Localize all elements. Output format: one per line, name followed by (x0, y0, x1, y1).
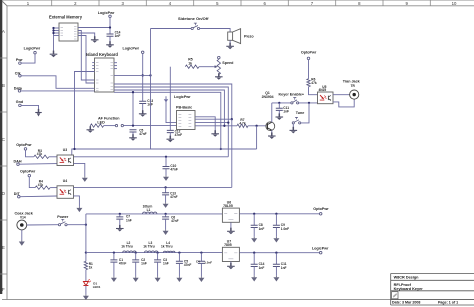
svg-text:1nF: 1nF (281, 266, 287, 270)
keyboard stub pins left (92, 62, 94, 64)
capacitor C15 1nF (253, 253, 255, 265)
wire U4 emitter to ground (74, 196, 80, 207)
title block (391, 274, 474, 306)
svg-text:Keyboard Keyer: Keyboard Keyer (394, 287, 424, 291)
svg-text:E: E (2, 245, 5, 250)
svg-text:U4: U4 (63, 179, 67, 183)
svg-text:1.5nF: 1.5nF (204, 260, 212, 264)
ground under C2 (135, 276, 137, 278)
capacitor C13 1nF (139, 101, 146, 103)
svg-text:A: A (2, 29, 5, 34)
svg-text:C: C (2, 137, 5, 142)
ground under C14 (109, 41, 111, 45)
svg-text:1k: 1k (188, 61, 192, 65)
ground under C10 (165, 175, 167, 177)
ground under speaker (229, 43, 231, 47)
ground (Gnd input) (38, 109, 40, 113)
capacitor C4/C10 1.5nF (200, 253, 202, 262)
wire LogicPwr down to pin/cap (142, 54, 144, 102)
wire AF node to PB-Basic (124, 125, 177, 127)
wire PB pin 3 (195, 122, 228, 124)
wire Pwr to LogicPwr (21, 54, 35, 63)
svg-text:1k: 1k (89, 265, 93, 269)
capacitor C10 47nF (165, 157, 167, 167)
svg-text:10: 10 (452, 1, 457, 6)
capacitor C3 1nF (157, 253, 159, 260)
svg-text:LogicPwr: LogicPwr (174, 95, 191, 99)
ground under C15 (253, 276, 255, 278)
ground under C5b (178, 276, 180, 278)
svg-text:1k Thru: 1k Thru (161, 245, 173, 249)
svg-text:78L05: 78L05 (223, 204, 233, 208)
wire U4 collector long line (74, 186, 232, 188)
ground under D1 (85, 294, 87, 296)
capacitor C5 47nF (130, 130, 137, 132)
svg-text:47nF: 47nF (171, 219, 178, 223)
svg-text:2N3904: 2N3904 (262, 95, 274, 99)
wire bottom rail (86, 252, 223, 254)
capacitor C2 1nF (135, 253, 137, 260)
ground under U7 (230, 263, 232, 267)
wire keyboard bus 2 (114, 87, 228, 157)
svg-text:47nF: 47nF (175, 133, 182, 137)
ground under C7 (119, 225, 121, 229)
ground under C6 (165, 229, 167, 231)
wire keyboard pin via vertical to line A (75, 72, 95, 150)
svg-text:OptoPwr: OptoPwr (20, 169, 36, 173)
svg-text:C4: C4 (196, 259, 200, 263)
svg-text:Page: 1 of 1: Page: 1 of 1 (438, 301, 458, 305)
svg-text:OptoPwr: OptoPwr (313, 207, 329, 211)
capacitor C14 1nF (107, 34, 114, 36)
svg-text:1nF: 1nF (115, 34, 121, 38)
svg-text:LED: LED (97, 120, 105, 124)
capacitor C7 1nF (119, 213, 121, 215)
wire memory pin6 down to keyboard (78, 31, 95, 81)
wire Gnd to ground (21, 105, 38, 112)
svg-text:Tran Jack: Tran Jack (343, 79, 361, 83)
node sidetone vertical (150, 29, 152, 150)
ground under U3 output (84, 176, 86, 178)
svg-text:OptoPwr: OptoPwr (16, 143, 32, 147)
svg-text:LogicPwr: LogicPwr (98, 11, 115, 15)
svg-text:1k Thru: 1k Thru (121, 245, 133, 249)
capacitor C13b 47nF (165, 187, 167, 192)
capacitor C9 1nF (275, 214, 277, 226)
svg-text:TR: TR (351, 84, 356, 88)
svg-text:Island Keyboard: Island Keyboard (86, 52, 118, 57)
wire OptoPwr rail out (239, 213, 319, 215)
svg-text:1k Thru: 1k Thru (143, 245, 155, 249)
wire U3 collector line to keyboard bus (74, 156, 229, 158)
svg-text:Gnd: Gnd (16, 100, 24, 104)
wire memory pin8 down to keyboard (78, 36, 95, 84)
svg-text:Keyer Enable+: Keyer Enable+ (279, 93, 305, 97)
capacitor C16 1nF (275, 253, 277, 265)
svg-text:47nF: 47nF (170, 167, 177, 171)
svg-text:PB-Basic: PB-Basic (176, 106, 192, 110)
svg-text:U3: U3 (63, 148, 67, 152)
ground under Tune (292, 127, 294, 131)
wire Data to keyboard (21, 90, 95, 92)
wire keyboard bus 3 (114, 90, 224, 126)
svg-text:Date: 3 Mar 2008: Date: 3 Mar 2008 (392, 301, 420, 305)
svg-text:B: B (2, 83, 5, 88)
svg-text:47nF: 47nF (119, 262, 126, 266)
ground under U4 output (78, 206, 80, 208)
wire U7 ground pin (230, 262, 232, 267)
svg-text:LogicPwr: LogicPwr (123, 47, 140, 51)
svg-text:L1: L1 (147, 208, 151, 212)
ground under U6 (230, 228, 232, 232)
ground under C1 (113, 276, 115, 278)
capacitor C12 47nF (speed net) (169, 67, 171, 131)
svg-text:F: F (2, 287, 5, 292)
ground under C16 (275, 276, 277, 278)
wire memory pin7 to ground (78, 33, 95, 40)
node V+ vertical (85, 214, 87, 253)
svg-text:Tune: Tune (296, 111, 305, 115)
svg-text:1nF: 1nF (259, 266, 265, 270)
svg-text:47nF: 47nF (139, 132, 146, 136)
svg-text:Pwr: Pwr (16, 58, 23, 62)
ground under PB wire (214, 130, 216, 134)
LED connector pins (115, 124, 117, 126)
svg-text:47k: 47k (311, 81, 317, 85)
ground under C12 (169, 136, 171, 140)
wire keyboard pin to AF cap node (132, 92, 134, 125)
svg-text:1nF: 1nF (126, 218, 132, 222)
svg-text:V14: V14 (20, 216, 26, 220)
wire LogicPwr rail out (239, 252, 319, 254)
ground under AF resistor (89, 126, 91, 130)
ground under memory bus (53, 51, 55, 55)
capacitor C11 1nF (278, 103, 280, 108)
capacitor C6 47nF (164, 213, 166, 215)
ground under C11 (278, 113, 280, 117)
svg-text:Sidetone On/Off: Sidetone On/Off (178, 16, 209, 21)
svg-text:47nF: 47nF (184, 263, 191, 267)
capacitor C5b 47nF (178, 253, 180, 262)
svg-text:7805: 7805 (224, 243, 232, 247)
wire Q1 emitter to ground (271, 130, 273, 136)
svg-text:1.0nF: 1.0nF (281, 227, 289, 231)
svg-text:Power: Power (57, 215, 69, 219)
ground under C13 (142, 110, 144, 114)
svg-text:Piezo: Piezo (244, 34, 254, 38)
svg-text:D: D (2, 191, 5, 196)
wire keyer node (272, 102, 291, 104)
svg-text:1nF: 1nF (283, 110, 289, 114)
svg-text:Speed: Speed (222, 61, 234, 65)
wire PB pin 4 to Q1 base (195, 125, 237, 127)
svg-text:W8CR Design: W8CR Design (394, 275, 420, 279)
svg-text:1nF: 1nF (259, 227, 265, 231)
ground under C9 (275, 237, 277, 239)
wire U5 output to jack (333, 94, 350, 96)
svg-text:1nF: 1nF (141, 262, 147, 266)
wire U5 emitter loop to jack sleeve (333, 99, 354, 107)
wire keyboard bus 4 (114, 92, 221, 149)
wire U3 emitter to ground (74, 163, 85, 176)
ground right of memory (94, 36, 96, 40)
wire memory pin5 to LogicPwr node (78, 27, 110, 29)
wire PB pin 2 (195, 118, 232, 120)
ground under C4 (200, 276, 202, 278)
wire keyboard bus 1 (114, 84, 232, 119)
wire PB pin to ground (195, 117, 215, 134)
svg-text:LED1: LED1 (93, 285, 101, 289)
memory left pins bus (54, 27, 60, 29)
ground under C5 (132, 134, 134, 138)
svg-text:LogicPwr: LogicPwr (24, 47, 41, 51)
ground under Speed pot (218, 73, 220, 77)
speaker Piezo (228, 32, 233, 40)
ground under Q1 (271, 132, 273, 136)
svg-text:LogicPwr: LogicPwr (312, 246, 329, 250)
wire Q1 collector up (271, 103, 273, 122)
wire Clk to keyboard (21, 76, 94, 89)
capacitor C1 47nF (113, 253, 115, 260)
ground under Coax Jack (21, 240, 23, 242)
ground under C8 (253, 237, 255, 239)
capacitor C8 1nF (253, 214, 255, 226)
svg-text:OptoPwr: OptoPwr (301, 51, 317, 55)
svg-text:1nF: 1nF (163, 262, 169, 266)
ground under C13b (165, 202, 167, 204)
wire keyboard pin to sidetone (114, 74, 151, 76)
keyboard stub pins right (114, 62, 117, 64)
ground under C3 (157, 276, 159, 278)
wire top rail (86, 213, 223, 215)
resistor R1 1k (85, 253, 87, 262)
svg-text:47nF: 47nF (170, 195, 177, 199)
wire U3 base line to Q1 base (72, 149, 257, 155)
svg-text:External Memory: External Memory (49, 15, 83, 20)
wire U6 ground pin (230, 222, 232, 231)
